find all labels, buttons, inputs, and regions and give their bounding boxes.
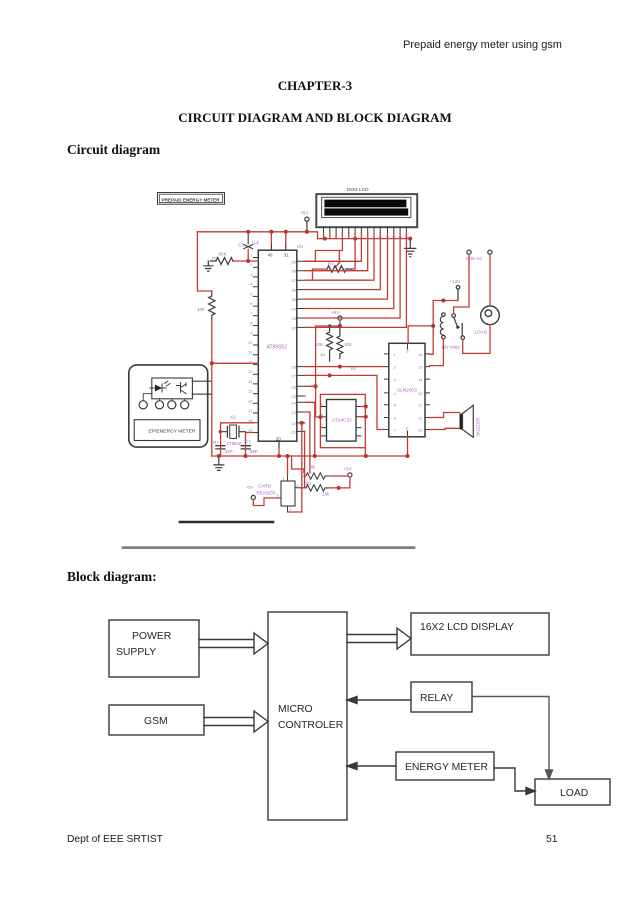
svg-text:220v AC: 220v AC (466, 256, 484, 261)
svg-text:CONTROLER: CONTROLER (278, 720, 344, 731)
svg-text:1: 1 (394, 352, 397, 357)
svg-text:39: 39 (291, 259, 296, 264)
svg-text:POWER: POWER (132, 631, 172, 642)
svg-text:10K: 10K (343, 267, 352, 272)
svg-text:5: 5 (348, 236, 350, 240)
svg-text:C1: C1 (246, 439, 252, 444)
svg-text:6: 6 (394, 416, 397, 421)
svg-text:+12V: +12V (450, 279, 462, 284)
svg-text:9: 9 (250, 330, 253, 335)
svg-text:X1: X1 (230, 415, 236, 420)
svg-text:13: 13 (248, 369, 253, 374)
svg-text:PREPAID ENERGY METER: PREPAID ENERGY METER (162, 197, 221, 202)
svg-text:15: 15 (418, 365, 423, 370)
svg-text:16X2 LCD: 16X2 LCD (347, 187, 370, 193)
svg-text:3: 3 (276, 493, 279, 498)
svg-text:CARD: CARD (258, 484, 272, 489)
svg-text:11: 11 (248, 350, 253, 355)
svg-text:AT24C32: AT24C32 (332, 418, 352, 424)
svg-text:4: 4 (341, 236, 343, 240)
svg-text:12: 12 (418, 403, 423, 408)
svg-text:B2: B2 (351, 366, 357, 371)
svg-text:8: 8 (367, 236, 369, 240)
svg-text:24: 24 (291, 400, 296, 405)
svg-text:9: 9 (406, 349, 409, 354)
svg-text:8: 8 (250, 321, 253, 326)
svg-text:7: 7 (321, 424, 323, 428)
svg-text:23: 23 (291, 410, 296, 415)
svg-text:21: 21 (291, 429, 296, 434)
svg-text:10K: 10K (197, 307, 206, 312)
svg-text:3: 3 (335, 236, 337, 240)
svg-text:R1: R1 (306, 481, 312, 486)
svg-text:5: 5 (250, 291, 253, 296)
svg-text:6: 6 (250, 301, 253, 306)
svg-text:60K: 60K (219, 252, 228, 257)
svg-text:13: 13 (418, 391, 423, 396)
svg-text:12: 12 (392, 236, 396, 240)
svg-text:4: 4 (296, 483, 299, 488)
svg-text:11: 11 (418, 416, 423, 421)
svg-text:10: 10 (248, 340, 253, 345)
svg-text:1: 1 (282, 476, 285, 481)
svg-text:11: 11 (386, 236, 390, 240)
svg-text:17MHZ: 17MHZ (227, 441, 242, 446)
svg-text:33P: 33P (250, 449, 258, 454)
svg-text:16X2 LCD DISPLAY: 16X2 LCD DISPLAY (420, 622, 514, 633)
svg-text:13: 13 (398, 236, 402, 240)
svg-text:33: 33 (291, 316, 296, 321)
svg-text:9: 9 (373, 236, 375, 240)
svg-text:I/O: I/O (297, 244, 304, 249)
svg-text:10K: 10K (344, 342, 353, 347)
svg-text:C3: C3 (238, 243, 244, 248)
svg-text:10k: 10k (323, 492, 331, 497)
svg-text:2: 2 (394, 365, 397, 370)
svg-text:10K: 10K (315, 342, 324, 347)
svg-text:36: 36 (291, 288, 296, 293)
svg-text:2: 2 (329, 236, 331, 240)
svg-text:R3: R3 (212, 256, 218, 261)
svg-text:1: 1 (250, 253, 253, 258)
svg-text:15: 15 (248, 389, 253, 394)
svg-text:16: 16 (418, 352, 423, 357)
svg-text:20: 20 (276, 436, 281, 441)
svg-text:ENERGY METER: ENERGY METER (405, 762, 488, 773)
svg-text:19: 19 (248, 428, 253, 433)
svg-text:17: 17 (248, 408, 253, 413)
svg-text:5: 5 (394, 403, 397, 408)
svg-text:27: 27 (291, 373, 296, 378)
svg-text:+5V: +5V (300, 211, 309, 216)
svg-text:BUZZER: BUZZER (476, 417, 481, 436)
svg-text:4: 4 (250, 282, 253, 287)
svg-text:LOAD: LOAD (560, 788, 588, 799)
svg-text:GSM: GSM (144, 716, 168, 727)
svg-text:M1: M1 (213, 440, 219, 445)
svg-text:B1: B1 (321, 352, 327, 357)
svg-text:MICRO: MICRO (278, 704, 313, 715)
svg-text:33P: 33P (225, 449, 233, 454)
svg-text:10: 10 (378, 236, 382, 240)
svg-text:12v relay: 12v relay (441, 345, 460, 350)
svg-text:16: 16 (248, 398, 253, 403)
svg-text:14: 14 (418, 377, 423, 382)
svg-text:+5V: +5V (344, 467, 353, 472)
svg-text:READER: READER (257, 491, 277, 496)
svg-text:ULN2003: ULN2003 (397, 388, 418, 394)
svg-text:10: 10 (418, 428, 423, 433)
svg-text:AT89S52: AT89S52 (267, 345, 288, 351)
svg-text:26: 26 (291, 384, 296, 389)
svg-text:LOAD: LOAD (475, 330, 488, 335)
svg-text:3: 3 (250, 272, 253, 277)
svg-text:7: 7 (394, 428, 397, 433)
svg-text:8: 8 (406, 427, 409, 432)
svg-text:7: 7 (250, 311, 253, 316)
svg-text:1: 1 (322, 236, 324, 240)
svg-text:32: 32 (291, 325, 296, 330)
svg-text:14: 14 (248, 379, 253, 384)
svg-text:+5V: +5V (331, 310, 340, 315)
svg-text:38: 38 (291, 269, 296, 274)
svg-text:SUPPLY: SUPPLY (116, 647, 156, 658)
svg-text:2: 2 (289, 507, 292, 512)
svg-text:37: 37 (291, 278, 296, 283)
svg-text:6: 6 (321, 413, 323, 417)
svg-text:14: 14 (404, 236, 408, 240)
svg-text:2: 2 (250, 262, 253, 267)
svg-text:18: 18 (248, 418, 253, 423)
svg-text:1uF: 1uF (252, 241, 260, 246)
svg-text:25: 25 (291, 394, 296, 399)
svg-text:22: 22 (291, 421, 296, 426)
svg-text:35: 35 (291, 297, 296, 302)
svg-text:10k: 10k (309, 465, 317, 470)
svg-text:7: 7 (360, 236, 362, 240)
svg-text:5: 5 (321, 403, 323, 407)
svg-text:28: 28 (291, 365, 296, 370)
svg-text:3: 3 (394, 377, 397, 382)
svg-text:12: 12 (248, 359, 253, 364)
svg-text:RELAY: RELAY (420, 693, 453, 704)
svg-text:6: 6 (354, 236, 356, 240)
svg-text:34: 34 (291, 307, 296, 312)
svg-text:31: 31 (284, 252, 289, 257)
svg-text:R2: R2 (328, 262, 334, 267)
svg-text:40: 40 (268, 252, 273, 257)
svg-text:+5V: +5V (246, 485, 254, 490)
svg-text:EP/ENERGY METER: EP/ENERGY METER (149, 429, 196, 435)
